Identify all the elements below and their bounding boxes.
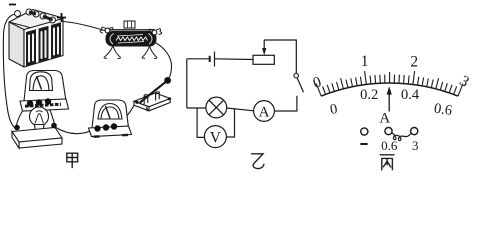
meter1 base [20, 99, 69, 111]
voltmeter circle [204, 126, 226, 148]
wire lamp right post up to meter1 right post [48, 104, 56, 126]
rheostat left wing post [105, 28, 110, 33]
wire top left to battery [187, 58, 210, 60]
lamp base front [19, 138, 62, 148]
rheostat (jia) [100, 21, 162, 58]
lamp cross [209, 100, 224, 115]
rheostat slider [124, 21, 135, 28]
rheostat slider wire [264, 40, 296, 73]
meter2 needle [106, 106, 111, 119]
terminal 0.6 [385, 128, 392, 135]
svg-text:A: A [259, 105, 270, 121]
rheostat right legs [142, 46, 157, 58]
wire battery plus to rheostat left post [57, 21, 105, 30]
switch lever blade [140, 82, 166, 103]
minus sign [360, 143, 367, 145]
wire rheostat right post to switch knob [154, 42, 172, 79]
switch post left [144, 95, 148, 104]
rheostat body cylinder [106, 32, 156, 47]
meter1 needle [37, 76, 42, 90]
meter1 terminal posts [27, 98, 51, 106]
battery pack 3D box [9, 10, 63, 68]
meter2 (voltmeter) body [89, 100, 132, 137]
battery long plate [214, 52, 216, 67]
battery short plate [209, 56, 211, 62]
lamp holder neck [35, 125, 45, 134]
battery plus label [57, 13, 66, 22]
switch contact circle [294, 73, 299, 78]
label yi [252, 154, 264, 169]
battery minus label [9, 4, 16, 6]
svg-text:3: 3 [412, 138, 419, 153]
squiggle wire between terminals [392, 133, 411, 141]
knife switch [134, 78, 171, 112]
meter2 feet [94, 135, 129, 137]
rheostat slider arrowhead [262, 48, 266, 55]
battery left end face [9, 22, 24, 67]
battery cell 1 [26, 29, 36, 66]
svg-text:1: 1 [361, 53, 369, 70]
meter1 (on lamp stand) body [20, 71, 69, 112]
svg-text:0.2: 0.2 [360, 87, 378, 103]
battery terminal connector bar [29, 12, 36, 14]
switch base top face [134, 93, 170, 107]
lamp filament [35, 111, 44, 124]
meter1 base front dark band [25, 104, 61, 106]
battery cell 3 [51, 22, 61, 59]
lamp base top [12, 128, 62, 143]
battery top face [9, 10, 63, 31]
pointer needle [388, 92, 390, 112]
voltmeter branch right stub [226, 109, 234, 137]
dial tick marks [316, 71, 463, 96]
wire lamp right post to meter2 left post [55, 127, 96, 134]
label bing [380, 155, 394, 170]
svg-text:0.4: 0.4 [401, 87, 420, 103]
wire lamp to left wire [187, 107, 206, 109]
svg-text:A: A [379, 110, 390, 126]
lamp circle [206, 97, 227, 118]
switch front edge tick [146, 107, 149, 111]
svg-text:0: 0 [329, 101, 339, 118]
label jia [67, 153, 78, 167]
wire battery to rheostat [215, 58, 254, 61]
wire left vertical [186, 59, 188, 108]
wire ammeter to lamp [227, 108, 254, 111]
switch post right [156, 92, 160, 100]
terminal 3 [411, 128, 418, 135]
switch pivot dot [135, 101, 138, 104]
battery terminal posts on top [15, 9, 56, 23]
svg-text:2: 2 [410, 54, 418, 71]
meter2 terminal posts [94, 123, 117, 131]
rheostat left legs [104, 46, 120, 58]
voltmeter branch left stub [197, 108, 204, 137]
switch blade [297, 78, 303, 92]
rheostat rectangle [253, 55, 274, 64]
wire meter2 right post to switch base [114, 104, 135, 127]
switch right corner dot [168, 97, 171, 100]
meter1 dial window [30, 72, 53, 91]
svg-text:0.6: 0.6 [433, 101, 453, 119]
lamp bulb [12, 107, 62, 148]
meter2 base [89, 126, 132, 137]
wire switch down to ammeter [274, 96, 297, 111]
wire lamp left post up to meter1 left post [16, 106, 28, 127]
switch knob [165, 78, 171, 84]
battery cell 2 [39, 26, 49, 63]
svg-text:V: V [210, 129, 222, 146]
lamp base posts [14, 125, 20, 131]
svg-text:0.6: 0.6 [381, 138, 398, 153]
svg-text:0: 0 [311, 73, 324, 92]
svg-text:3: 3 [457, 72, 473, 91]
switch base front edges [134, 101, 149, 111]
rheostat top rail [107, 29, 155, 31]
dial arc [321, 83, 458, 96]
battery front face with cells [24, 19, 63, 68]
meter2 dial window [98, 104, 122, 120]
ammeter circle [254, 101, 275, 122]
rheostat right wing post [152, 30, 157, 35]
wire from battery minus down left edge to lamp base left post [3, 14, 15, 128]
terminal minus [361, 128, 368, 135]
rheostat winding highlight [116, 37, 148, 41]
